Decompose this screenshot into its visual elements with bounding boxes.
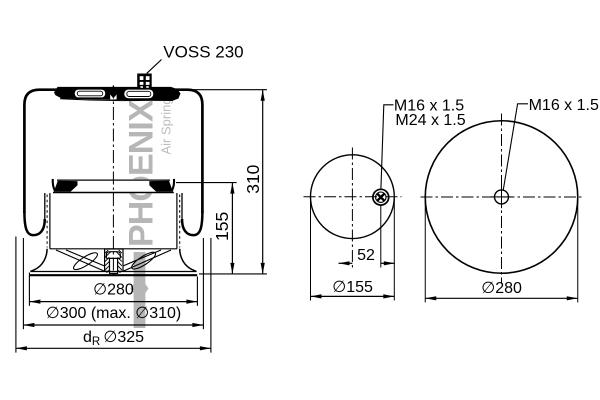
svg-text:VOSS 230: VOSS 230 [163,42,243,61]
plate hole left [75,90,105,98]
base plate top line [30,271,196,273]
cone top line [50,248,177,250]
plate lower contour [60,99,150,101]
bellows contact line left [44,193,46,220]
centerline vertical [351,148,353,268]
bellows outline [24,90,202,213]
piston skirt right [180,249,197,271]
cone hole left [71,250,99,272]
dim dia155 [311,199,395,301]
tray top line [57,179,170,181]
center boss [105,249,123,271]
piston skirt left [31,249,47,271]
ext lines right of figure [192,89,267,91]
svg-text:∅280: ∅280 [481,280,522,297]
centerline horizontal [304,196,402,198]
centerline horizontal [421,196,583,198]
dim line 155 vertical [212,183,234,274]
label M16 right [503,97,599,190]
watermark logo diamond [131,276,149,302]
plate center notch [110,95,116,100]
watermark Phoenix Air Springs [123,90,174,328]
dim 52 [339,247,395,265]
centerline vertical [501,114,503,284]
piston top tray [53,179,174,193]
center hole [495,190,509,204]
ext lines bottom left figure [28,273,30,306]
svg-text:∅280: ∅280 [93,281,134,298]
svg-text:M16 x 1.5: M16 x 1.5 [529,97,599,114]
tray bead right [149,181,173,192]
svg-text:PHOENIX: PHOENIX [123,99,161,247]
plate hole right [124,90,153,99]
dim line dR 325 [16,329,211,350]
base plate bottom line [30,274,198,276]
circle dia155 view [311,155,395,239]
svg-text:∅155: ∅155 [332,279,373,296]
dim line dia280 [29,281,197,303]
circle dia280 view [425,121,578,274]
dim dia280 right [425,199,578,302]
piston wall right [176,193,178,249]
port circle [373,189,389,205]
cone hole right [130,249,158,271]
dim line dia300 max310 [23,305,203,327]
piston wall left [49,193,51,249]
cone diagonals [56,250,105,271]
bellows contact line right [181,193,183,220]
tray bottom line [53,192,174,194]
bolt stud [110,258,118,273]
watermark logo shaft [134,252,146,328]
tray lip right [172,179,174,191]
svg-text:155: 155 [212,212,232,241]
VOSS 230 label [147,42,244,73]
centerline left figure [111,85,115,279]
rolling lobe right [182,211,202,235]
label M16/M24 [381,97,466,189]
boss hatch [105,250,122,273]
svg-text:∅300 (max. ∅310): ∅300 (max. ∅310) [46,305,181,322]
dim line 310 vertical [243,90,265,274]
port ext line [380,206,382,268]
tray lip left [53,179,55,191]
piston interior [50,249,177,274]
svg-text:310: 310 [243,164,263,193]
tray bead left [54,181,78,192]
svg-text:M24 x 1.5: M24 x 1.5 [395,112,465,129]
VOSS fitting [137,74,152,89]
svg-text:52: 52 [357,247,375,264]
piston walls [31,193,197,271]
plate crimp section [54,87,181,101]
piston base [30,272,198,276]
top plate band [54,87,181,101]
rolling lobe left [24,211,44,235]
